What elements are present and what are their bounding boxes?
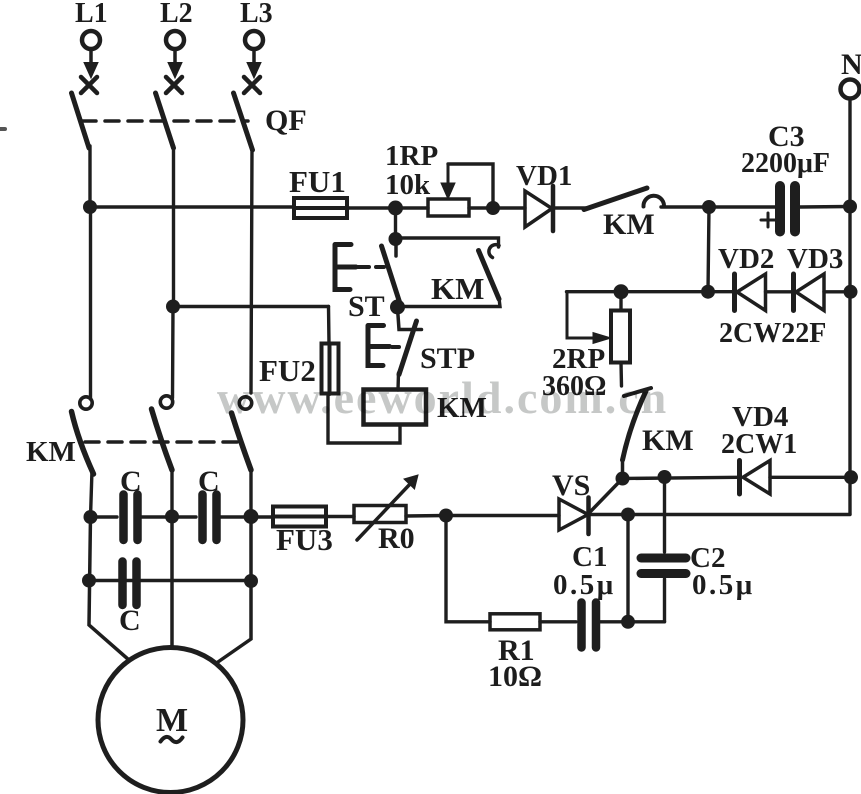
wire L2 vertical (172, 146, 175, 307)
wire L1 vertical to bus (88, 146, 91, 207)
svg-text:N: N (841, 48, 861, 81)
node ST bottom (390, 300, 405, 315)
wire pole1 to third bus (91, 470, 93, 517)
KM main linkage dashed line (85, 440, 239, 444)
svg-text:C: C (198, 465, 220, 498)
wire VS to rail (lower line) (589, 513, 851, 516)
svg-text:R0: R0 (378, 522, 415, 555)
terminal L1 (82, 31, 100, 49)
svg-text:FU3: FU3 (276, 522, 333, 557)
wire third bus segment c (220, 515, 273, 518)
pushbutton STP dashed link (392, 345, 399, 349)
wire L2 down to motor (170, 516, 174, 648)
svg-text:L1: L1 (75, 0, 108, 29)
svg-text:L3: L3 (240, 0, 273, 29)
wire C1 to C2 bottom (600, 620, 665, 623)
pushbutton ST dashed link (358, 265, 384, 269)
node third bus pole2 (165, 510, 179, 524)
pushbutton STP stub (398, 308, 422, 330)
node VD3 rail (844, 285, 858, 299)
wire STP to coil (396, 373, 400, 390)
svg-text:M: M (156, 702, 188, 739)
wire pole3 to third bus (249, 468, 252, 516)
wire top main bus (90, 205, 294, 208)
node VS line tap (621, 508, 635, 522)
wire node to self-hold branch (394, 208, 397, 239)
wire FU1 to node (347, 206, 428, 209)
breaker QF pole 1 blade (72, 93, 90, 148)
wire L2 feeder to KM pole2 (171, 307, 175, 399)
svg-text:10k: 10k (385, 169, 431, 201)
resistor R0 body (354, 506, 406, 523)
wire upper right line (623, 477, 738, 478)
svg-text:0.5μ: 0.5μ (692, 569, 755, 601)
thyristor VS (559, 499, 588, 530)
contactor KM main pole 1 blade (72, 412, 94, 475)
contactor KM main pole 3 hook (239, 397, 251, 409)
breaker QF pole 2 blade (156, 93, 174, 148)
wire VS-line tap down to R1C1 (626, 515, 629, 622)
node VD4 rail (844, 470, 858, 484)
svg-text:2200μF: 2200μF (741, 148, 830, 179)
node L2 second bus (166, 300, 180, 314)
node fourth bus right (244, 574, 258, 588)
node C3-N (843, 200, 857, 214)
terminal L2 (166, 31, 184, 49)
wire third bus segment a (91, 515, 118, 518)
thyristor VS gate wire (590, 479, 623, 513)
node VD2 left (701, 285, 715, 299)
svg-text:2CW22F: 2CW22F (719, 318, 826, 349)
wire 1RP to VD1 (469, 206, 525, 209)
rheostat 1RP body (428, 199, 469, 216)
node R1C1 line (621, 615, 635, 629)
capacitor C (middle) plates (198, 495, 207, 541)
node ST top (389, 232, 403, 246)
svg-text:VS: VS (552, 469, 590, 502)
node VS gate KM (616, 472, 630, 486)
wire R0 to VS (406, 514, 559, 518)
node KM-C3 (702, 200, 716, 214)
svg-text:VD2: VD2 (718, 243, 774, 275)
fuse FU2 (322, 344, 339, 394)
node C2 tap (658, 470, 672, 484)
contactor contact KM (top) blade (584, 188, 647, 210)
svg-text:2CW1: 2CW1 (721, 429, 797, 460)
diode VD4 (737, 461, 742, 495)
contactor KM main pole 2 hook (160, 396, 172, 408)
wire VD2 to VD3 (766, 290, 794, 293)
wire N rail (848, 99, 851, 514)
wire L1 feeder to KM pole1 (89, 207, 92, 399)
wire L1 down to motor (89, 516, 129, 660)
fuse FU3 (273, 507, 326, 527)
wire KM contact to C3 (661, 205, 775, 208)
rheostat 2RP body (611, 311, 630, 363)
wire FU3 to R0 (326, 515, 354, 518)
pushbutton STP actuator E (368, 326, 390, 366)
node 2RP top (614, 284, 629, 299)
svg-text:KM: KM (431, 271, 484, 306)
pushbutton ST blade (382, 246, 401, 304)
diode VD2 (708, 290, 733, 293)
node third bus pole1 (84, 510, 98, 524)
wire coil bottom loop to FU2 (328, 394, 400, 443)
capacitor C1 plates (577, 603, 586, 648)
capacitor C (left) plates (119, 495, 128, 541)
wire 2RP top line (567, 290, 709, 293)
resistor R1 body (490, 614, 540, 630)
wire VD1 to KM contact (553, 206, 588, 209)
rheostat 1RP wiper arrow (447, 164, 450, 184)
node fourth bus left (82, 574, 96, 588)
wire VD3 to rail (824, 290, 851, 293)
wire second bus (173, 305, 329, 308)
wire third bus segment b (141, 515, 196, 518)
node R0-VS tap (439, 509, 453, 523)
svg-text:C: C (119, 604, 141, 637)
svg-text:VD3: VD3 (787, 243, 843, 275)
self-hold KM aux fixed hook (489, 245, 499, 258)
capacitor C3 plates (775, 186, 785, 232)
wire R1 to C1 (540, 620, 576, 623)
terminal L3 (245, 31, 263, 49)
contactor contact KM (right) T-bar (624, 388, 651, 396)
self-hold KM aux contact top wire (396, 238, 499, 247)
pushbutton ST stub (394, 240, 398, 256)
resistor R0 arrow (357, 483, 411, 540)
wire node to 2RP top (619, 292, 622, 311)
rheostat 1RP loop wire (448, 164, 493, 207)
svg-text:QF: QF (265, 104, 307, 137)
contactor contact KM (right) blade (623, 391, 647, 460)
fuse FU1 (294, 198, 347, 218)
svg-text:1RP: 1RP (385, 140, 438, 172)
node L1-bus (83, 200, 97, 214)
wire VD4 to rail (770, 476, 851, 479)
breaker QF pole 3 blade (234, 93, 253, 150)
contactor KM main pole 3 blade (232, 413, 252, 470)
svg-text:KM: KM (26, 436, 76, 468)
QF linkage dashed line (82, 119, 248, 123)
wire L3 vertical (251, 148, 252, 393)
wire pole2 to third bus (170, 468, 173, 516)
scan artifact left edge (0, 127, 5, 131)
svg-text:C: C (120, 465, 142, 498)
contactor contact KM (top) fixed hook (643, 196, 664, 207)
svg-text:0.5μ: 0.5μ (553, 569, 616, 601)
wire L3 down to motor (217, 516, 252, 663)
contactor coil KM (364, 390, 427, 425)
wire C3 node down to VD2 line (708, 207, 709, 292)
wire 2RP bottom to KM contact (619, 363, 623, 387)
diode VD3 (791, 274, 796, 311)
rheostat 2RP wiper arrow (593, 333, 611, 344)
svg-text:STP: STP (420, 342, 475, 375)
capacitor C3 plus sign (761, 213, 775, 227)
wire C3 to N rail (800, 205, 850, 209)
svg-text:L2: L2 (160, 0, 193, 29)
pushbutton ST actuator E (335, 245, 356, 290)
capacitor C2 plates (641, 554, 686, 563)
contactor KM main pole 1 hook (80, 397, 92, 409)
node third bus pole3 (244, 509, 259, 524)
diode VD1 (525, 191, 552, 227)
svg-text:10Ω: 10Ω (488, 660, 542, 693)
terminal N (841, 80, 860, 99)
wire C2 tap vertical (663, 478, 666, 553)
self-hold KM aux blade (479, 251, 500, 300)
wire KM right blade to node (621, 458, 625, 479)
self-hold KM aux bottom wire (397, 298, 501, 307)
capacitor C (lower) plates (118, 562, 127, 606)
wire fourth bus (89, 579, 251, 582)
wire R0-line tap down to R1 (446, 516, 490, 622)
node 1RP-VD1 (486, 201, 500, 215)
motor M circle (98, 648, 243, 793)
svg-text:KM: KM (603, 208, 655, 241)
pushbutton STP blade (399, 321, 417, 375)
contactor KM main pole 2 blade (152, 409, 173, 470)
svg-text:KM: KM (642, 424, 694, 457)
svg-text:FU1: FU1 (289, 164, 346, 199)
svg-text:ST: ST (348, 290, 385, 323)
motor tilde (161, 737, 183, 742)
rheostat 2RP loop (567, 292, 600, 338)
svg-text:www.eeworld.com.cn: www.eeworld.com.cn (217, 372, 668, 423)
wire C2 to R1C1 line (663, 579, 666, 622)
wire FU2 up to second bus (327, 307, 331, 345)
node FU1-1RP (388, 201, 403, 216)
svg-text:VD1: VD1 (516, 160, 572, 192)
